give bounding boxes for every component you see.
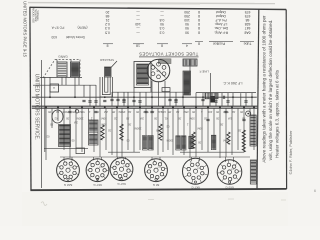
- svg-text:.05: .05: [128, 122, 132, 126]
- svg-text:0.3: 0.3: [160, 30, 165, 34]
- i-f transformer T3 (winding pair): [143, 136, 148, 151]
- svg-text:647: 647: [245, 26, 251, 30]
- svg-text:1MEG: 1MEG: [158, 110, 166, 114]
- svg-text:.05: .05: [48, 110, 52, 114]
- svg-text:630: 630: [51, 35, 57, 39]
- svg-text:Output: Output: [216, 10, 226, 14]
- svg-text:21: 21: [106, 18, 110, 22]
- svg-text:SPEAKER: SPEAKER: [99, 58, 114, 62]
- wire: left border runner: [41, 60, 43, 188]
- svg-text:6A7 G: 6A7 G: [117, 182, 126, 186]
- resistor R5: [192, 132, 195, 148]
- pencil marks (margin): [41, 202, 47, 206]
- svg-text:.05: .05: [66, 116, 70, 120]
- svg-text:0.8: 0.8: [160, 18, 165, 22]
- svg-text:LINE F.: LINE F.: [199, 70, 209, 74]
- svg-text:TUBE SOCKET VOLTAGES: TUBE SOCKET VOLTAGES: [139, 52, 198, 57]
- svg-text:8: 8: [198, 22, 200, 26]
- svg-text:6A8 G: 6A8 G: [63, 183, 72, 187]
- svg-text:100: 100: [184, 18, 190, 22]
- svg-text:6K7 G: 6K7 G: [93, 183, 102, 187]
- svg-text:50M: 50M: [197, 126, 203, 130]
- antenna choke coil L3: [183, 71, 191, 95]
- trimmer box: [50, 84, 59, 92]
- svg-text:I-F 260 K.C.: I-F 260 K.C.: [223, 81, 243, 85]
- tube socket V5 (6K7 G): [183, 158, 209, 184]
- tube socket V6 (6X5 G): [217, 160, 242, 185]
- svg-text:0.3: 0.3: [160, 26, 165, 30]
- svg-text:675: 675: [245, 14, 251, 18]
- svg-text:Voltages: Voltages: [36, 10, 40, 21]
- svg-text:675: 675: [245, 10, 251, 14]
- svg-text:.05: .05: [50, 122, 54, 126]
- svg-text:Pri. A-F: Pri. A-F: [215, 18, 226, 22]
- svg-text:68 G: 68 G: [152, 183, 159, 187]
- svg-text:250: 250: [184, 10, 190, 14]
- svg-text:.02: .02: [238, 128, 242, 132]
- svg-text:.05: .05: [216, 116, 220, 120]
- svg-text:A: A: [53, 86, 55, 90]
- svg-text:6A8: 6A8: [244, 30, 250, 34]
- choke box mid-right: [205, 93, 218, 99]
- B+ bus double line: [32, 105, 258, 107]
- svg-text:02: 02: [54, 116, 57, 120]
- wire: row y92: [112, 91, 190, 93]
- suppression choke box: [183, 59, 197, 66]
- svg-text:.05: .05: [72, 110, 76, 114]
- wires: socket feeders: [63, 157, 65, 160]
- svg-text:6: 6: [314, 189, 316, 193]
- svg-text:.05: .05: [156, 128, 160, 132]
- scan artifact: page top edge: [28, 3, 275, 4]
- table header rule: [103, 43, 113, 45]
- svg-text:250M: 250M: [166, 138, 173, 142]
- svg-text:250M: 250M: [134, 126, 141, 130]
- svg-text:.02: .02: [108, 128, 112, 132]
- terminal box: [76, 148, 85, 154]
- svg-text:8: 8: [198, 26, 200, 30]
- svg-text:.05: .05: [178, 116, 182, 120]
- svg-text:02: 02: [46, 134, 49, 138]
- svg-text:.05: .05: [192, 110, 196, 114]
- svg-text:volt, using the scale on which: volt, using the scale on which the large…: [268, 20, 273, 161]
- tube socket V3 (6A7 G): [110, 158, 133, 181]
- svg-text:250M: 250M: [76, 116, 83, 120]
- svg-text:.05: .05: [240, 110, 244, 114]
- svg-text:18: 18: [136, 44, 140, 48]
- resistor R7: [227, 132, 230, 144]
- svg-text:250: 250: [184, 14, 190, 18]
- svg-text:50M: 50M: [189, 116, 195, 120]
- svg-text:UNITED MOTORS PAGE 9-15: UNITED MOTORS PAGE 9-15: [23, 1, 28, 58]
- jack circle J1: [75, 110, 78, 113]
- svg-text:8: 8: [198, 14, 200, 18]
- svg-text:65: 65: [106, 14, 110, 18]
- svg-text:VIB: VIB: [156, 69, 160, 73]
- svg-text:GANG: GANG: [58, 54, 68, 58]
- svg-text:6X5 G: 6X5 G: [225, 186, 234, 190]
- svg-text:90: 90: [160, 22, 164, 26]
- resistor R9: [101, 125, 104, 140]
- wire: socket top row links: [44, 148, 88, 150]
- svg-text:250M: 250M: [118, 110, 125, 114]
- capacitor on y97 wire: [222, 96, 224, 99]
- svg-text:PC-97-A: PC-97-A: [51, 25, 64, 29]
- antenna coil L1: [57, 62, 67, 77]
- dial lamp: [246, 111, 251, 116]
- svg-text:Output: Output: [216, 14, 226, 18]
- vibrator socket U1 (top view): [147, 59, 170, 82]
- resistor R4: [159, 124, 162, 140]
- svg-text:.05: .05: [168, 110, 172, 114]
- svg-text:20: 20: [106, 10, 110, 14]
- i-f transformer T4 (winding pair): [176, 136, 181, 150]
- svg-text:.05: .05: [136, 110, 140, 114]
- svg-text:8: 8: [198, 10, 200, 14]
- svg-text:90: 90: [185, 22, 189, 26]
- svg-text:UNITED MOTORS SERVICE.: UNITED MOTORS SERVICE.: [33, 74, 39, 141]
- gang condenser dashed enclosure: [43, 60, 55, 79]
- svg-text:25M: 25M: [183, 110, 189, 114]
- output transformer T1: [134, 62, 151, 88]
- svg-text:.05: .05: [154, 116, 158, 120]
- svg-text:.02: .02: [176, 110, 180, 114]
- svg-text:90: 90: [185, 30, 189, 34]
- svg-text:8: 8: [198, 18, 200, 22]
- svg-text:Tube: Tube: [244, 41, 252, 45]
- svg-text:05: 05: [71, 138, 74, 142]
- svg-text:.02: .02: [114, 116, 118, 120]
- svg-text:4: 4: [186, 44, 188, 48]
- svg-text:05: 05: [126, 138, 129, 142]
- r-f coil L2: [71, 62, 80, 77]
- svg-text:50M: 50M: [101, 116, 107, 120]
- svg-text:I-F Amp.: I-F Amp.: [215, 22, 228, 26]
- svg-text:50M: 50M: [143, 110, 149, 114]
- winding L5: [189, 136, 193, 149]
- svg-text:.05: .05: [126, 116, 130, 120]
- svg-text:©John F. Rider, Publisher: ©John F. Rider, Publisher: [288, 130, 293, 175]
- svg-text:Above readings taken with a me: Above readings taken with a meter having…: [262, 15, 267, 163]
- winding column L6: [242, 130, 245, 152]
- tube socket V2 (6K7 G): [86, 159, 109, 182]
- svg-text:.02: .02: [232, 110, 236, 114]
- svg-text:Position: Position: [213, 41, 226, 45]
- svg-text:.05: .05: [220, 122, 224, 126]
- i-f transformer T2: [89, 120, 99, 145]
- svg-text:.02: .02: [128, 110, 132, 114]
- wire: antenna row y77: [40, 76, 82, 78]
- wire: row y97: [32, 96, 257, 98]
- svg-text:50M: 50M: [79, 110, 85, 114]
- svg-text:0.3: 0.3: [105, 26, 110, 30]
- svg-text:.02: .02: [204, 116, 208, 120]
- svg-text:.05: .05: [112, 110, 116, 114]
- svg-text:8: 8: [106, 44, 108, 48]
- svg-text:02: 02: [166, 124, 169, 128]
- tube socket V4 (68 G): [145, 159, 168, 182]
- r-f choke block: [211, 96, 216, 103]
- svg-text:68: 68: [246, 18, 250, 22]
- candohm resistor R3: [250, 160, 256, 184]
- winding block R6: [211, 135, 216, 150]
- tube socket V1 (6A8 G): [57, 159, 80, 182]
- oscillator coil L4: [59, 125, 71, 147]
- wires: verticals top right of gang: [189, 59, 191, 66]
- svg-text:50M: 50M: [223, 110, 229, 114]
- svg-text:0.5: 0.5: [105, 30, 110, 34]
- svg-text:400: 400: [207, 110, 212, 114]
- svg-text:90: 90: [185, 26, 189, 30]
- svg-text:.05: .05: [198, 140, 202, 144]
- svg-text:50M: 50M: [101, 122, 107, 126]
- svg-text:8: 8: [161, 44, 163, 48]
- junction dots along B+ bus: [45, 106, 47, 108]
- svg-text:.02: .02: [56, 110, 60, 114]
- svg-text:01: 01: [164, 116, 167, 120]
- svg-text:Series Model: Series Model: [66, 35, 86, 39]
- svg-text:Heater voltages 6.3, approx. t: Heater voltages 6.3, approx. taken at 6 …: [274, 69, 279, 158]
- svg-text:8: 8: [198, 41, 200, 45]
- svg-text:(NEW): (NEW): [78, 25, 88, 29]
- svg-text:0.2: 0.2: [105, 22, 110, 26]
- svg-text:R-F Amp.: R-F Amp.: [214, 30, 228, 34]
- page border frame: [30, 7, 286, 9]
- svg-text:8: 8: [198, 30, 200, 34]
- svg-text:250M: 250M: [62, 110, 69, 114]
- oscillator coil former (oval): [52, 110, 63, 123]
- wire: row y85: [33, 84, 96, 86]
- svg-text:Det.-Osc.: Det.-Osc.: [214, 26, 228, 30]
- svg-text:628: 628: [245, 22, 251, 26]
- svg-text:140: 140: [135, 22, 141, 26]
- resistor box on y92 wire: [162, 88, 170, 92]
- svg-text:.05: .05: [242, 116, 246, 120]
- svg-text:50M: 50M: [223, 138, 229, 142]
- label box under caption: [160, 59, 172, 64]
- candohm resistor R2: [250, 115, 256, 146]
- junction dots row y97: [49, 96, 51, 98]
- capacitors C1-C14: [82, 99, 85, 101]
- wires: vertical drops (upper): [49, 77, 51, 97]
- svg-text:.05: .05: [216, 110, 220, 114]
- svg-text:.05: .05: [96, 110, 100, 114]
- svg-text:6K7 G: 6K7 G: [191, 185, 200, 189]
- extra capacitors above bus: [88, 100, 91, 102]
- resistor R8: [120, 124, 123, 140]
- wires: vertical drops (lower): [45, 108, 47, 160]
